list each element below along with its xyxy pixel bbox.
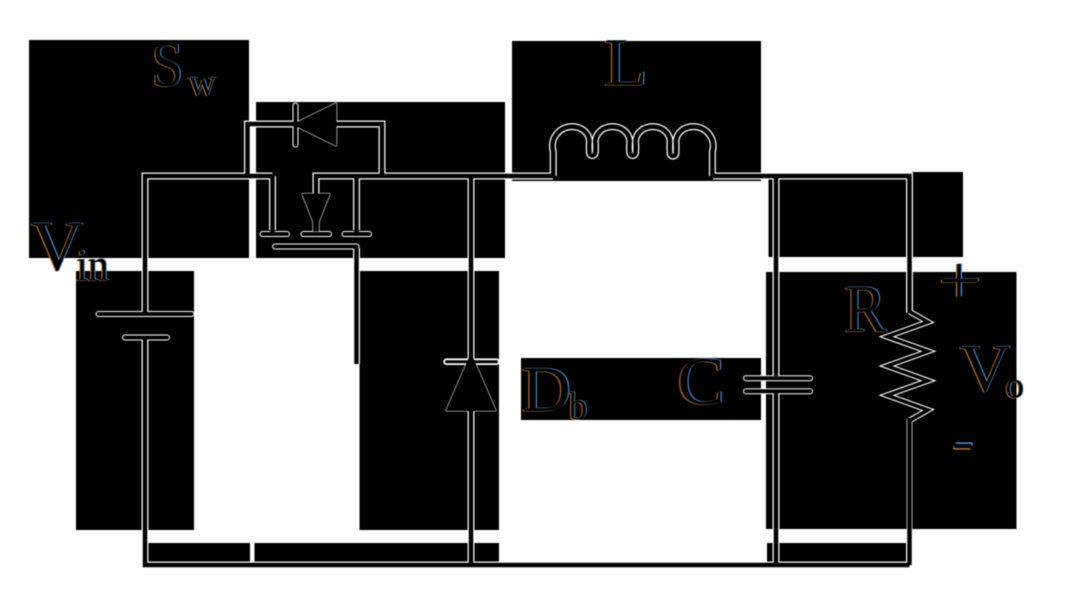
wire: top rail, inductor L to resistor R [713,176,910,313]
MOSFET Sw drain contact bar halo [263,231,288,237]
bottom bar 1 [147,543,250,562]
output polarity minus sign [953,444,972,448]
wire: diode Db cathode lead [469,176,474,359]
svg-text:C: C [677,344,724,419]
svg-text:b: b [569,385,588,428]
box diode Db column [360,271,500,530]
MOSFET Sw source contact bar [304,232,330,236]
svg-text:L: L [604,25,648,100]
wire: resistor R lower lead [907,418,912,565]
diode Db triangle [447,354,496,411]
triangle halos [294,104,496,411]
box MOSFET area [256,102,505,258]
diode Db cathode bar [447,360,497,363]
wire: top rail left segment + battery Vin positive lead [145,176,273,311]
label b subscript of Db [568,385,589,429]
label R [843,272,887,347]
wire: MOSFET Sw bulk lead [353,176,360,230]
MOSFET Sw source arrow halo [303,194,330,231]
black bars (rounded) [99,106,811,392]
battery Vin long plate [99,312,192,316]
box Db / C label strip [521,358,761,420]
wire: capacitor C bottom lead [773,393,780,565]
box right output (R, +, Vo, -) [766,272,1017,529]
svg-text:w: w [189,62,217,104]
bottom bar 2 [255,543,500,562]
wire: capacitor C top lead [773,176,780,376]
MOSFET Sw drain contact bar [263,232,288,236]
svg-text:S: S [152,30,184,101]
wire: MOSFET Sw gate lead [353,248,360,364]
box A below rail between C and R [769,180,907,258]
MOSFET Sw gate bar [275,245,357,249]
wire: body diode branch over switch Sw [248,124,383,176]
svg-text:o: o [1005,366,1024,407]
halos of bars (rounded) [99,106,811,392]
label V of Vin [30,207,84,287]
battery Vin long plate halo [99,311,192,317]
label o subscript of Vo [1004,365,1025,407]
wire: MOSFET Sw gate lead [354,248,359,364]
wire: MOSFET Sw source segment [316,176,382,196]
body diode triangle halo [294,104,337,146]
diode Db cathode bar halo [447,358,497,365]
wire: MOSFET Sw bulk lead [354,176,359,232]
wire: body diode branch over switch Sw [248,124,383,177]
MOSFET Sw source arrow [303,194,330,231]
resistor R zigzag [887,312,928,421]
wire: diode Db anode lead [468,410,475,565]
body diode cathode bar halo [293,106,299,145]
label D of Db [521,354,572,426]
svg-text:D: D [522,354,571,425]
wire: top rail, switch node to inductor L [382,174,553,179]
body diode triangle [294,104,337,146]
wire: capacitor C top lead [774,176,779,376]
wire: top rail, switch node to inductor L [382,173,553,180]
box L area [512,41,761,181]
battery Vin short plate halo [125,335,167,341]
svg-text:R: R [844,273,886,347]
inductor L coil halo [552,127,713,176]
wire: diode Db cathode lead [468,176,475,359]
wire: diode Db anode lead [469,410,474,565]
wire: battery Vin negative lead + bottom ground rail [145,339,910,565]
MOSFET Sw bulk contact bar halo [345,231,370,237]
wire: capacitor C bottom lead [774,393,779,565]
svg-text:V: V [960,331,1011,406]
wire: MOSFET Sw source segment [316,176,382,196]
wire: MOSFET Sw drain lead [270,176,275,232]
diode Db triangle halo [447,354,496,411]
label w subscript of Sw [188,62,218,105]
svg-text:in: in [76,241,109,291]
output polarity plus sign [941,264,979,298]
label L [603,25,649,101]
wire: battery Vin negative lead + bottom ground rail [145,340,910,565]
box battery Vin area [76,271,194,530]
body diode cathode bar [294,106,298,145]
battery Vin short plate [125,336,167,340]
capacitor C plates [746,376,810,380]
filled triangles [294,104,496,411]
box top-left (behind Sw / Vin) [29,40,249,258]
bottom bar 3 [767,543,906,562]
inductor L coil [552,127,713,176]
resistor R zigzag halo [887,312,928,566]
wire: top rail left segment + battery Vin positive lead [145,176,273,312]
MOSFET Sw gate bar halo [275,244,357,250]
wire: top rail, inductor L to resistor R [713,176,910,313]
label in subscript of Vin [75,241,110,292]
MOSFET Sw source contact bar halo [304,231,330,237]
capacitor C plate halos [746,375,810,381]
wire: MOSFET Sw drain lead [269,176,276,230]
MOSFET Sw bulk contact bar [345,232,370,236]
label C [676,344,726,420]
label V of Vo [959,331,1012,407]
box B right of R wire [912,172,963,257]
label S of Sw [151,30,185,102]
